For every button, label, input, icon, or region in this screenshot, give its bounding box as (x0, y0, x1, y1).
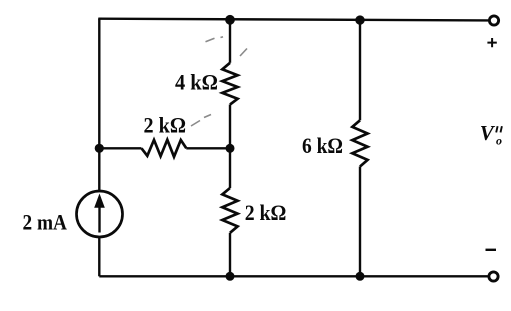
wire: left branch upper segment (98, 19, 100, 192)
svg-text:6 kΩ: 6 kΩ (302, 133, 343, 158)
svg-text:2 kΩ: 2 kΩ (144, 112, 187, 137)
wire: middle branch left segment from node B (99, 147, 141, 149)
wire: top rail from node A to output terminal (98, 19, 488, 21)
junction node C right end of middle branch (226, 144, 235, 153)
wire: middle branch right segment to node C (186, 147, 230, 149)
wire: bottom rail to output terminal (99, 275, 487, 277)
wire: right branch bottom segment (359, 167, 361, 277)
current source I1 2 mA (77, 191, 123, 237)
wire: center branch middle segment (229, 105, 231, 189)
junction: right branch to bottom rail (356, 272, 365, 281)
junction node D at top of center branch (225, 15, 235, 25)
wire: center branch top segment from node D (229, 20, 231, 63)
svg-text:o: o (496, 134, 502, 148)
resistor R2 4 kOhm vertical zigzag (222, 63, 237, 105)
junction: center branch to bottom rail (226, 272, 235, 281)
svg-text:4 kΩ: 4 kΩ (175, 70, 218, 95)
resistor R3 2 kOhm vertical zigzag (222, 188, 237, 233)
label: output voltage Vo double-prime (480, 121, 502, 148)
wire: left branch lower segment (98, 237, 100, 276)
junction node E at top of right branch (355, 15, 364, 24)
svg-text:2 mA: 2 mA (23, 210, 68, 235)
scan artifact: faint diagonal scratch near 4 kOhm (191, 37, 247, 126)
output terminal positive (open circle) (489, 16, 498, 25)
junction node B left end of middle branch (95, 144, 104, 153)
label: minus polarity mark (486, 249, 497, 251)
resistor R4 6 kOhm vertical zigzag (352, 120, 367, 166)
svg-text:2 kΩ: 2 kΩ (245, 200, 287, 225)
wire: center branch bottom segment (229, 233, 231, 276)
label: plus polarity mark (487, 38, 496, 47)
svg-text:V: V (480, 121, 496, 145)
output terminal negative (open circle) (489, 272, 498, 281)
wire: right branch top segment from node E (359, 20, 361, 120)
resistor R1 2 kOhm horizontal zigzag (142, 140, 187, 157)
